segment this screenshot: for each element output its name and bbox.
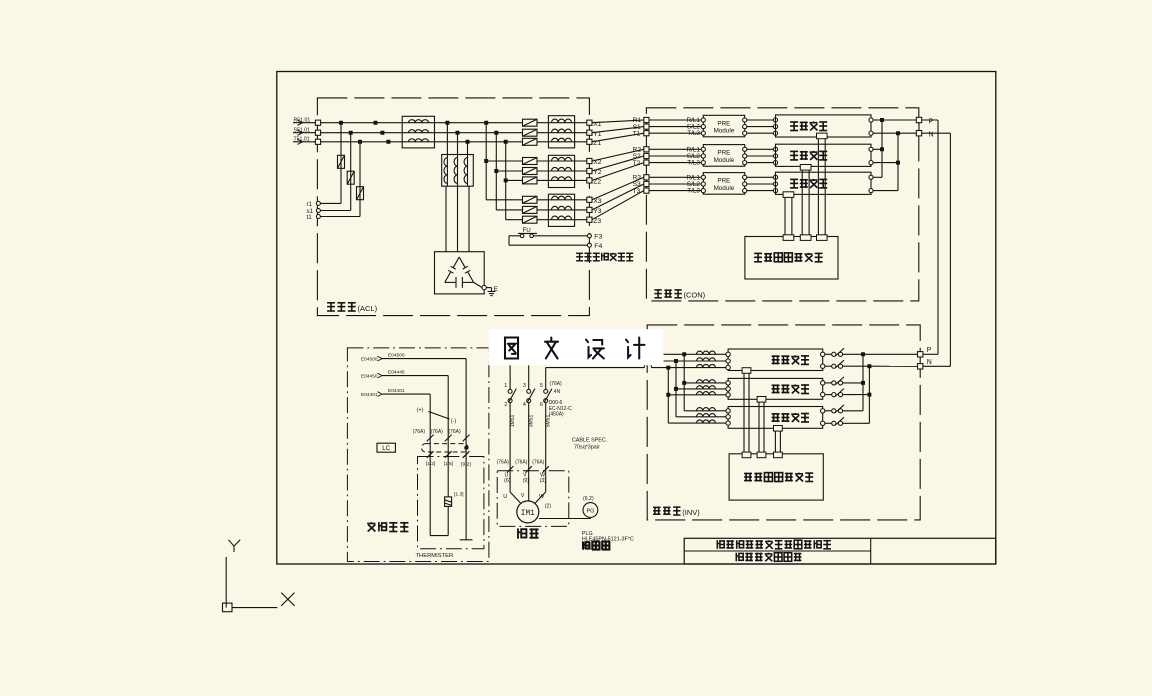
wire 2 to capacitor bank xyxy=(457,186,459,252)
label thermistor cjk xyxy=(367,522,408,531)
svg-text:E04401: E04401 xyxy=(388,388,405,394)
filter coil X2 xyxy=(552,157,572,161)
wire N m2 to bus xyxy=(843,394,870,396)
inverter N pin m3 xyxy=(821,421,825,425)
PRE output pin g1p2 xyxy=(743,125,747,129)
rectifier input pin g2p1 xyxy=(773,147,777,151)
wire PRE to rectifier g1l3 xyxy=(747,132,774,134)
svg-text:PRE: PRE xyxy=(717,150,730,157)
label terminal W xyxy=(540,472,547,484)
rectifier output P pin 1 xyxy=(869,118,873,122)
rectifier output N pin 2 xyxy=(869,161,873,165)
label [1.2] xyxy=(426,461,436,467)
svg-text:[1.3]: [1.3] xyxy=(454,491,464,497)
svg-text:F3: F3 xyxy=(594,234,602,241)
filter coil Z2 xyxy=(552,177,572,181)
reactor coil R xyxy=(409,120,429,123)
control bus to module2 xyxy=(800,165,811,241)
wire R2 to PRE xyxy=(649,146,701,153)
wire coil2 through xyxy=(457,155,459,187)
breaker contact 5-6 xyxy=(540,383,552,408)
PRE input pin g1p3 xyxy=(701,131,705,135)
wire T to transformer xyxy=(467,142,469,155)
svg-text:(+): (+) xyxy=(417,407,424,413)
svg-text:(INV): (INV) xyxy=(682,508,700,517)
svg-text:70sq*3pair: 70sq*3pair xyxy=(574,445,600,451)
svg-text:V: V xyxy=(521,493,525,499)
input choke m2l1 xyxy=(697,380,716,383)
wire T main xyxy=(321,141,523,143)
svg-text:[1.2]: [1.2] xyxy=(426,461,436,467)
PRE input pin g1p1 xyxy=(701,118,705,122)
svg-text:(76A): (76A) xyxy=(431,429,444,435)
interconnect wire T1 xyxy=(592,133,644,142)
inverter input pin m1l2 xyxy=(726,359,730,363)
filter coil box group 3 xyxy=(548,194,574,226)
wire P m1 to switch xyxy=(825,353,832,355)
rectifier module box 2 xyxy=(776,144,872,166)
terminal square N INV xyxy=(918,359,932,369)
cable mark phase 2 xyxy=(515,459,532,472)
wire module3 P out xyxy=(873,176,882,178)
svg-text:S51.01: S51.01 xyxy=(294,128,311,134)
interconnect wire T2 xyxy=(592,163,644,181)
inverter input pin m1l3 xyxy=(726,365,730,369)
drawing frame border xyxy=(277,72,996,565)
terminal square T2 CCN xyxy=(633,160,649,167)
thermistor outer dash-dot enclosure xyxy=(347,348,489,562)
wire P to terminal xyxy=(882,119,916,121)
wire N link down xyxy=(922,133,951,366)
wire PRE to rectifier g2l2 xyxy=(747,155,774,157)
terminal square Y3 xyxy=(587,207,602,215)
cable mark thermistor xyxy=(445,435,452,442)
inverter module box 3 xyxy=(728,407,823,429)
reactor coil T xyxy=(409,139,429,142)
svg-text:4: 4 xyxy=(523,402,526,408)
wire P m1 to bus xyxy=(843,353,863,355)
control bus to inv module1 xyxy=(742,368,751,458)
transformer box xyxy=(442,155,474,187)
wire inverter in m3l3 xyxy=(668,422,726,424)
label motor leads V xyxy=(521,493,525,499)
thermistor loop left xyxy=(430,457,448,536)
terminal square Z2 xyxy=(587,178,602,186)
shield capsule xyxy=(422,444,469,452)
bus V vertical INV xyxy=(674,359,678,417)
wire P m2 to bus xyxy=(843,382,863,384)
PRE output pin g1p3 xyxy=(743,131,747,135)
disconnect switch P m2 xyxy=(832,377,844,385)
label inverter module 1 xyxy=(772,355,809,364)
node dot R mid xyxy=(374,121,378,125)
label [1.3] xyxy=(454,491,464,497)
inverter P pin m3 xyxy=(821,409,825,413)
terminal square Y1 xyxy=(587,130,602,138)
wire motor phase 2 lower xyxy=(528,403,530,471)
wire group2 line Z2 xyxy=(506,179,587,181)
svg-text:P: P xyxy=(927,347,932,354)
svg-text:E04450: E04450 xyxy=(361,373,378,379)
fuse group3 Y3 xyxy=(523,206,538,213)
PRE output pin g3p1 xyxy=(743,175,747,179)
PRE input pin g2p2 xyxy=(701,154,705,158)
inverter input pin m2l3 xyxy=(726,393,730,397)
svg-text:1: 1 xyxy=(504,383,507,389)
inverter input pin m1l1 xyxy=(726,352,730,356)
input choke m2l3 xyxy=(697,392,716,395)
bus phase R vertical xyxy=(484,121,488,200)
cable mark phase 1 xyxy=(497,459,514,472)
label [9.2] xyxy=(461,461,471,467)
terminal square Z3 xyxy=(587,217,602,225)
wire motor to encoder xyxy=(539,517,591,518)
inverter cabinet INV dashed enclosure xyxy=(647,325,920,520)
axis horizontal line xyxy=(232,607,277,609)
wire group3 line Y3 xyxy=(496,209,586,211)
transformer coil 1 xyxy=(444,158,447,184)
interconnect wire R2 xyxy=(592,149,644,161)
fuse F r1 xyxy=(338,155,345,168)
node dot S mid xyxy=(380,131,384,135)
wire PRE to rectifier g2l3 xyxy=(747,162,774,164)
rectifier module box 3 xyxy=(776,172,872,194)
svg-text:3M51: 3M51 xyxy=(528,415,534,428)
wire module2 P out xyxy=(873,148,882,150)
title line 1 xyxy=(717,540,831,549)
wire 3 to capacitor bank xyxy=(468,186,470,252)
wire R3 to PRE xyxy=(649,174,701,181)
wire group3 line X3 xyxy=(486,199,587,201)
breaker contact 3-4 xyxy=(523,383,535,408)
terminal square S2 CCN xyxy=(633,153,649,160)
cable mark phase 3 xyxy=(532,459,549,472)
svg-text:R51.01: R51.01 xyxy=(294,118,311,124)
wire module3 N out xyxy=(873,190,898,192)
title block box xyxy=(684,538,996,564)
terminal circle F3 xyxy=(587,234,602,241)
wire inverter in m3l2 xyxy=(676,416,726,418)
PRE output pin g1p1 xyxy=(743,118,747,122)
control bus to module1 xyxy=(817,133,828,240)
terminal square P INV xyxy=(918,347,932,357)
rectifier input pin g3p3 xyxy=(773,189,777,193)
rectifier input pin g3p1 xyxy=(773,175,777,179)
bus W vertical INV xyxy=(666,366,670,424)
svg-text:PRE: PRE xyxy=(717,120,730,127)
wire inverter in m2l2 xyxy=(676,388,726,390)
svg-text:5M51: 5M51 xyxy=(545,415,551,428)
svg-text:1M51: 1M51 xyxy=(510,415,516,428)
svg-text:PG: PG xyxy=(587,509,595,515)
rectifier output N pin 1 xyxy=(869,131,873,135)
svg-text:E: E xyxy=(494,286,499,293)
svg-text:2: 2 xyxy=(504,402,507,408)
svg-text:LC: LC xyxy=(382,445,390,452)
label INV cabinet xyxy=(653,507,700,517)
labels 76A thermistor xyxy=(413,429,461,435)
node dot tap r1 xyxy=(339,121,343,125)
thermistor wire E04450 xyxy=(361,370,448,457)
wire FU loop to F4 xyxy=(509,236,587,245)
wire N m1 to bus xyxy=(843,365,870,367)
fuse F s1 xyxy=(347,171,354,184)
terminal square R3 CCN xyxy=(633,175,649,182)
fuse group2 Z2 xyxy=(523,177,538,184)
svg-text:5: 5 xyxy=(540,383,543,389)
terminal square N CCN xyxy=(916,131,933,139)
disconnect switch P m3 xyxy=(832,405,844,413)
encoder PG xyxy=(583,503,598,518)
PRE output pin g3p3 xyxy=(743,189,747,193)
svg-text:T2: T2 xyxy=(633,160,641,167)
label rectifier control module xyxy=(754,253,823,262)
input choke m2l2 xyxy=(697,386,716,389)
terminal square T3 CCN xyxy=(633,188,649,195)
wire group1 line X1 xyxy=(537,122,587,124)
PRE Module box group 3 xyxy=(703,173,744,195)
wire N bus to terminal INV xyxy=(869,365,917,367)
filter coil box group 2 xyxy=(548,155,574,187)
transformer coil 3 xyxy=(464,158,467,184)
cable mark thermistor lower xyxy=(463,451,470,458)
wire motor phase 1 lower xyxy=(509,403,511,471)
terminal square P CCN xyxy=(916,117,933,125)
wire inverter in m3l1 xyxy=(684,410,726,412)
wire P m3 to switch xyxy=(825,410,832,412)
svg-text:(-): (-) xyxy=(451,419,457,425)
wire S2 to PRE xyxy=(649,153,701,160)
wire motor phase 3 lower xyxy=(545,403,547,471)
node dot tap t1 xyxy=(358,140,362,144)
filter coil Z3 xyxy=(552,216,572,220)
input choke m3l2 xyxy=(697,414,716,417)
terminal circle s1 xyxy=(307,208,321,215)
wire label 1M51 xyxy=(510,415,516,428)
inverter input pin m2l1 xyxy=(726,381,730,385)
terminal square R in xyxy=(315,120,320,125)
wire S1 to PRE xyxy=(649,124,701,131)
wire motor phase W vertical xyxy=(545,368,547,390)
wire PRE to rectifier g3l2 xyxy=(747,183,774,185)
svg-text:(76A): (76A) xyxy=(448,429,461,435)
PRE input pin g2p1 xyxy=(701,147,705,151)
wire R main xyxy=(321,122,523,124)
thermistor wire E04500 xyxy=(361,353,466,457)
svg-text:(CON): (CON) xyxy=(684,291,706,300)
inverter input pin m3l3 xyxy=(726,421,730,425)
wire U into motor xyxy=(510,471,521,504)
wire motor phase U vertical xyxy=(509,354,511,389)
svg-text:T/L3: T/L3 xyxy=(687,188,700,195)
thermistor element xyxy=(445,457,452,536)
disconnect switch N m2 xyxy=(832,389,844,397)
wire label 3M51 xyxy=(528,415,534,428)
wire group3 line Z3 xyxy=(506,219,587,221)
inverter N pin m1 xyxy=(821,364,825,368)
PRE Module box group 2 xyxy=(703,145,744,167)
svg-text:IM1: IM1 xyxy=(521,510,535,518)
label motor leads U xyxy=(503,494,507,500)
inverter module box 2 xyxy=(728,378,823,399)
wire motor phase V vertical xyxy=(528,361,530,389)
inverter control module box xyxy=(729,454,823,500)
label terminal U xyxy=(504,472,511,484)
thermistor wire E04401 xyxy=(361,388,430,456)
interconnect wire S2 xyxy=(592,156,644,171)
wire tap down to r1 xyxy=(321,123,342,204)
wire P m2 to switch xyxy=(825,382,832,384)
polarity jumper line xyxy=(429,412,450,420)
wire module2 N out xyxy=(873,162,898,164)
node dot T mid xyxy=(386,140,390,144)
rectifier output N pin 3 xyxy=(869,189,873,193)
PRE output pin g3p2 xyxy=(743,182,747,186)
svg-text:Module: Module xyxy=(714,128,735,135)
cable mark thermistor lower xyxy=(445,451,452,458)
watermark tuwen sheji xyxy=(489,329,664,365)
disconnect switch N m1 xyxy=(832,360,844,368)
input choke m1l1 xyxy=(697,351,716,354)
fuse group3 X3 xyxy=(523,196,538,203)
terminal square Y2 xyxy=(587,168,602,176)
svg-text:(76A): (76A) xyxy=(515,459,528,465)
transformer coil 2 xyxy=(454,158,457,184)
filter coil box group 1 xyxy=(548,116,574,148)
ground symbol E xyxy=(486,286,498,295)
fuse group2 X2 xyxy=(523,158,538,165)
wire label 5M51 xyxy=(545,415,551,428)
label cable spec xyxy=(572,438,607,451)
wire inverter in m1l2 xyxy=(676,360,726,362)
LC box xyxy=(377,443,395,452)
wire group2 line Y2 xyxy=(496,170,586,172)
label pitch drive xyxy=(517,528,538,538)
inverter N pin m2 xyxy=(821,392,825,396)
wire PRE to rectifier g2l1 xyxy=(747,148,774,150)
svg-text:(76A): (76A) xyxy=(550,381,563,387)
label (6.2) xyxy=(583,496,594,502)
PRE output pin g2p3 xyxy=(743,161,747,165)
PRE input pin g3p1 xyxy=(701,175,705,179)
label inverter control module xyxy=(744,473,813,482)
bus P INV vertical xyxy=(861,352,865,411)
wire R1 to PRE xyxy=(649,117,701,124)
control bus to inv module2 xyxy=(757,397,766,458)
interconnect wire S1 xyxy=(592,127,644,133)
label CCN cabinet xyxy=(654,289,705,299)
rectifier input pin g3p2 xyxy=(773,182,777,186)
input choke m1l2 xyxy=(697,358,716,361)
label [1.5] xyxy=(444,461,454,467)
label reactor blown fuse signal xyxy=(576,253,633,261)
thermistor inner THERMISTER dash-dot box xyxy=(418,457,484,549)
svg-text:E04401: E04401 xyxy=(361,392,378,398)
label rectifier module 2 xyxy=(790,151,827,160)
label minus xyxy=(451,419,457,425)
svg-text:T51.01: T51.01 xyxy=(294,137,310,143)
rectifier output P pin 3 xyxy=(869,175,873,179)
control bus to inv module3 xyxy=(774,426,783,458)
svg-text:(2): (2) xyxy=(545,504,552,510)
svg-text:t1: t1 xyxy=(307,214,313,221)
label THERMISTER xyxy=(416,553,454,559)
PRE output pin g2p1 xyxy=(743,147,747,151)
bus phase T vertical xyxy=(504,140,508,220)
line reactor box xyxy=(402,116,434,148)
motor terminal dash-dot box xyxy=(497,471,569,527)
wire inverter in m2l3 xyxy=(668,394,726,396)
node dot T xfmr tap xyxy=(466,140,470,144)
terminal circle F4 xyxy=(587,243,602,250)
node dot R xfmr tap xyxy=(445,121,449,125)
rectifier input pin g1p2 xyxy=(773,125,777,129)
svg-text:4N: 4N xyxy=(554,389,561,395)
axis Y arrow xyxy=(229,540,241,552)
rectifier input pin g2p2 xyxy=(773,154,777,158)
label PLG xyxy=(582,531,593,537)
rectifier output P pin 2 xyxy=(869,147,873,151)
label rectifier module 3 xyxy=(790,179,827,188)
wire module1 N out xyxy=(873,132,898,134)
wire T2 to PRE xyxy=(649,160,701,167)
breaker contact 1-2 xyxy=(504,383,516,408)
filter coil Z1 xyxy=(552,138,572,142)
wire S main xyxy=(321,132,523,134)
wire T1 to PRE xyxy=(649,130,701,137)
wire N m3 to switch xyxy=(825,422,832,424)
svg-text:T/L3: T/L3 xyxy=(687,160,700,167)
svg-text:(76A): (76A) xyxy=(532,459,545,465)
node dot tap s1 xyxy=(349,131,353,135)
wire S3 to PRE xyxy=(649,181,701,188)
terminal square R1 CCN xyxy=(633,117,649,124)
wire U phase exit xyxy=(510,353,684,355)
label motor leads W xyxy=(539,494,545,500)
wire coil3 through xyxy=(467,155,469,187)
PRE input pin g2p3 xyxy=(701,161,705,165)
input choke m3l1 xyxy=(697,408,716,411)
svg-text:PRE: PRE xyxy=(717,178,730,185)
terminal square T1 CCN xyxy=(633,130,649,137)
title line 2 xyxy=(736,553,802,562)
control bus to module3 xyxy=(783,192,794,241)
svg-text:Module: Module xyxy=(714,185,735,192)
wire P m3 to bus xyxy=(843,410,863,412)
svg-text:T1: T1 xyxy=(633,130,641,137)
wire V into motor xyxy=(528,471,530,501)
terminal square R2 CCN xyxy=(633,147,649,154)
delta capacitor bank with box xyxy=(435,252,485,294)
terminal circle r1 xyxy=(307,201,321,208)
svg-text:T3: T3 xyxy=(633,188,641,195)
svg-text:THERMISTER: THERMISTER xyxy=(416,553,454,559)
inverter module box 1 xyxy=(728,349,823,371)
bus U vertical INV xyxy=(682,352,686,411)
wire inverter in m2l1 xyxy=(684,382,726,384)
svg-text:F4: F4 xyxy=(594,243,602,250)
terminal square S3 CCN xyxy=(633,181,649,188)
fuse group2 Y2 xyxy=(523,168,538,175)
filter coil X3 xyxy=(552,196,572,200)
motor IM1 xyxy=(517,501,539,523)
svg-text:(76A): (76A) xyxy=(497,459,510,465)
wire 1 to capacitor bank xyxy=(445,186,447,252)
reactor cabinet ACL dashed enclosure xyxy=(317,98,589,316)
fuse F t1 xyxy=(357,187,364,200)
rectifier cabinet CCN dashed enclosure xyxy=(646,108,918,301)
interconnect wire S3 xyxy=(592,184,644,210)
